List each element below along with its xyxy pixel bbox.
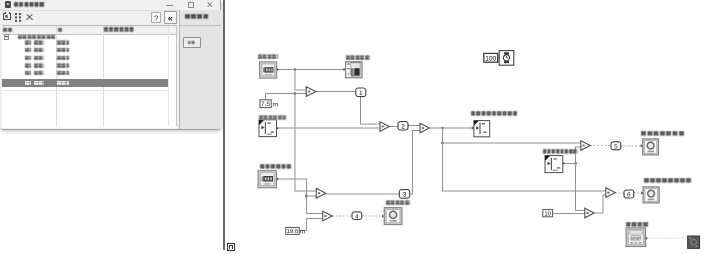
- wire: comp1 out to probe5 (boolean dashed): [590, 145, 611, 147]
- table header row: [2, 26, 177, 34]
- wire: concentration ctrl to tri2 bottom: [277, 127, 381, 129]
- header text value: [58, 28, 63, 33]
- probe 3: [399, 190, 409, 199]
- wire: 7.5 constant net: [266, 94, 307, 101]
- wire: 7.5 net down to tri4 top: [295, 94, 316, 191]
- tree expand box: [4, 34, 9, 39]
- wire: probe4 to gauge: [362, 215, 384, 217]
- row probe6 selected: [2, 79, 168, 87]
- constant 7.5: [260, 100, 279, 109]
- indicator below-low-limit alarm LED: [641, 139, 659, 155]
- control initial-level terminal (icon view): [260, 62, 280, 78]
- node: junction calc net: [441, 127, 444, 130]
- label concentration-low-limit: [543, 149, 578, 154]
- control concentration-low-limit slider (icon view): [545, 156, 565, 173]
- window minimize: [166, 5, 173, 6]
- svg-text:3: 3: [403, 192, 407, 199]
- wire: target-level branch to tri4 bottom: [306, 195, 316, 197]
- control exit-program stop button (icon view): [626, 228, 648, 247]
- svg-text:7.5: 7.5: [261, 101, 270, 108]
- table right split: [168, 26, 169, 126]
- wire: target-level ctrl net: [277, 179, 323, 213]
- control target-level terminal (icon view): [258, 171, 279, 188]
- title text probe-watch-window: [14, 2, 45, 7]
- wire: comp2 out to probe6: [615, 192, 624, 194]
- wire: comp3 out up to comp2 bottom: [594, 195, 606, 213]
- wire: low-limit up to comp1 bottom: [576, 147, 581, 163]
- wire: 100 to wait: [498, 57, 500, 59]
- wire: branch down from initial-level net: [295, 70, 306, 90]
- probe 5: [611, 142, 621, 151]
- wire: low-limit down to comp3 top: [576, 163, 585, 210]
- constant 100: [484, 53, 498, 62]
- svg-text:m: m: [273, 101, 279, 108]
- label below-low-limit-alarm: [641, 131, 685, 136]
- header col line 1: [56, 26, 57, 126]
- wire: calc net to comp1 top: [443, 142, 581, 144]
- svg-text:STOP: STOP: [631, 237, 641, 241]
- wire: probe6 to alarm LED2: [634, 192, 643, 194]
- label initial-concentration: [259, 115, 286, 120]
- while loop left border: [223, 0, 225, 250]
- op tri1 compare: [306, 87, 316, 97]
- indicator near-low-limit pre-alarm LED: [641, 187, 659, 203]
- wire: tri2 out to probe2: [389, 126, 398, 128]
- wire: tri5 out to probe4 (dbl thin): [332, 215, 352, 217]
- svg-text:4: 4: [355, 213, 359, 220]
- while loop iteration terminal i: [227, 243, 235, 250]
- wire: tri4 out to probe3: [326, 193, 400, 195]
- toolbar button delete: [26, 14, 33, 21]
- indicator tank to-fuel-pool (icon view): [344, 62, 363, 78]
- svg-text:«: «: [168, 13, 173, 23]
- label target-concentration-calc: [471, 111, 518, 116]
- op tri4 subtract: [316, 188, 326, 198]
- node: junction 7.5 net: [294, 92, 297, 95]
- titlebar icon: [5, 1, 12, 8]
- header text probe: [3, 28, 13, 33]
- sidebar title probe-display: [185, 14, 210, 19]
- tree row vi-name: [18, 35, 55, 40]
- indicator target-concentration-calc slider (icon view): [472, 121, 490, 137]
- header col line 2: [103, 26, 104, 126]
- constant 10: [543, 210, 553, 218]
- table area: [2, 25, 177, 128]
- indicator required-makeup-water gauge (icon view): [382, 208, 402, 225]
- node: junction initial-level: [294, 68, 297, 71]
- svg-text:m: m: [300, 229, 305, 236]
- op tri2 multiply: [380, 122, 389, 132]
- wire: probe5 to alarm LED1: [621, 145, 643, 147]
- svg-text:1: 1: [359, 90, 363, 97]
- window close: [207, 2, 212, 7]
- toolbar collapse button: [164, 11, 177, 23]
- loop condition terminal: [688, 236, 700, 248]
- wire: low-limit ctrl net: [563, 162, 576, 164]
- svg-text:2: 2: [401, 124, 405, 131]
- label initial-level: [258, 54, 278, 59]
- svg-text:10: 10: [544, 211, 551, 218]
- probe 1: [356, 88, 366, 97]
- svg-text:?: ?: [154, 13, 158, 22]
- wire: calc net vertical: [443, 128, 606, 191]
- row probe2: [25, 48, 32, 52]
- node: junction calc net 2: [441, 142, 444, 145]
- node: junction low-limit: [574, 162, 577, 165]
- probe 6: [624, 190, 634, 199]
- probe 2: [398, 122, 408, 131]
- toolbar button grid: [15, 13, 17, 15]
- wire: probe1 down to tri2 top: [361, 97, 380, 125]
- toolbar button new-probe: [3, 13, 11, 21]
- wire: 10 constant to comp3 bottom: [553, 213, 585, 215]
- probe 4: [352, 212, 362, 220]
- toolbar help button: [151, 12, 162, 23]
- wire: probe3 up to tri3 bottom: [410, 130, 420, 194]
- label to-fuel-pool: [346, 55, 370, 60]
- svg-text:5: 5: [614, 144, 618, 151]
- window maximize: [188, 2, 195, 8]
- op comp2 less-than2: [606, 188, 615, 198]
- control initial-concentration slider (icon view): [259, 120, 279, 137]
- label required-makeup-water: [386, 200, 410, 205]
- sidebar value button: [183, 37, 201, 48]
- op comp1 less-than: [581, 141, 590, 151]
- svg-text:19.6: 19.6: [287, 228, 299, 235]
- op tri3 divide: [420, 123, 429, 133]
- wire: probe2 to tri3 top: [408, 125, 420, 127]
- row probe5: [25, 71, 32, 75]
- constant 19.6: [286, 227, 305, 235]
- label near-low-limit-prealarm: [644, 178, 692, 183]
- wire: tri3 out to calc indicator: [429, 127, 474, 129]
- wire: initial-level to tank: [277, 69, 346, 71]
- svg-text:6: 6: [627, 192, 631, 199]
- row probe4: [25, 63, 32, 67]
- titlebar separator: [0, 10, 221, 11]
- label exit-program: [626, 222, 649, 227]
- node: junction target-level: [305, 194, 308, 197]
- function wait-ms (watch icon): [499, 51, 514, 66]
- row probe3: [25, 56, 32, 60]
- label target-level-setting: [260, 164, 292, 169]
- wire: stop button to loop condition (boolean dashed): [646, 237, 688, 239]
- op comp3 add: [585, 208, 594, 218]
- wire: tri1 out to probe1: [316, 91, 356, 93]
- header text last-update: [104, 27, 134, 32]
- separator under selection: [2, 90, 167, 91]
- svg-text:100: 100: [485, 56, 496, 63]
- wire: 19.6 constant up to tri5 bottom: [299, 219, 323, 231]
- op tri5 multiply2: [323, 211, 333, 221]
- sidebar: [179, 10, 222, 129]
- row probe1: [25, 40, 32, 44]
